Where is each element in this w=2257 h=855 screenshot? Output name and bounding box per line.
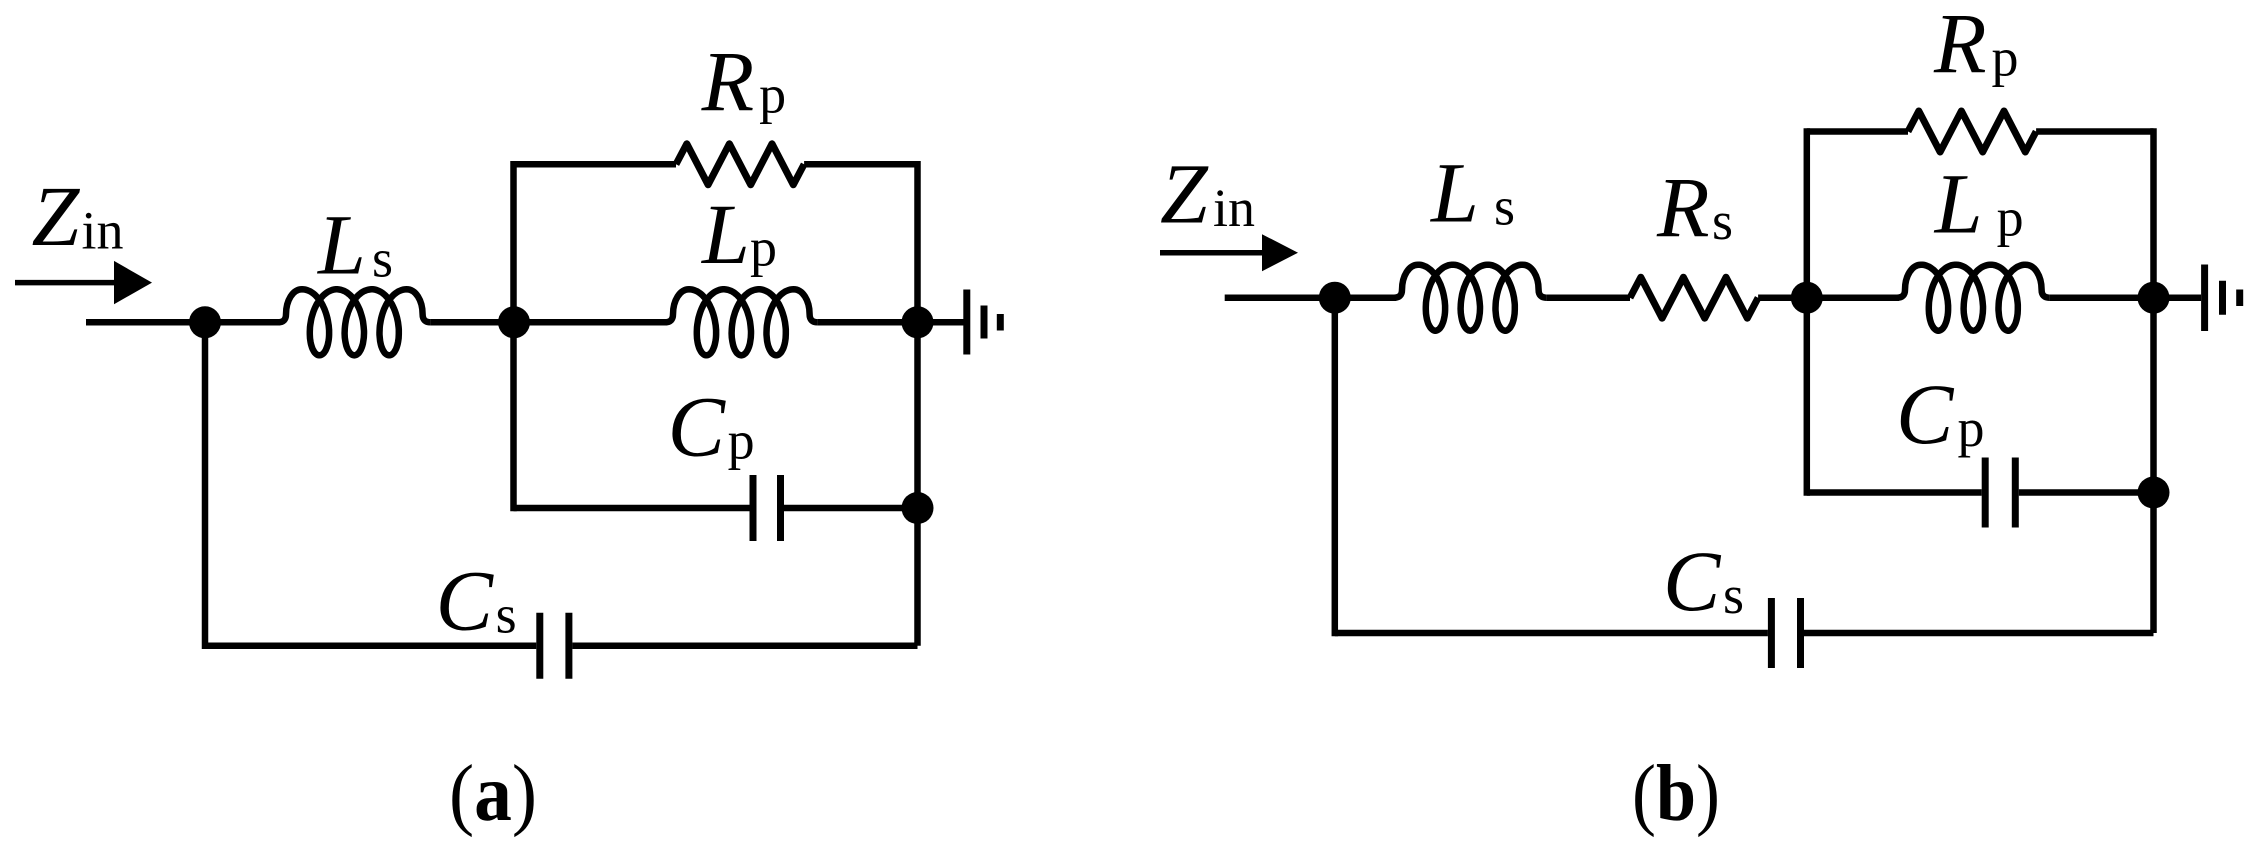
node 4 (b) junction (2138, 477, 2170, 509)
arrow Z_in (b) (1160, 250, 1265, 256)
svg-text:L: L (1933, 156, 1983, 252)
svg-text:L: L (700, 186, 750, 282)
svg-text:p: p (759, 65, 786, 125)
node 3 (b) junction (2138, 282, 2170, 314)
svg-text:R: R (701, 33, 755, 129)
svg-text:Z: Z (1160, 146, 1209, 242)
resistor Rp (a) (676, 144, 804, 185)
svg-text:s: s (1494, 177, 1515, 237)
wire node2 to Lp (b) (1800, 294, 1899, 301)
svg-text:L: L (316, 197, 366, 293)
wire Ls to node2 (a) (431, 319, 514, 326)
wire bottom left (a) (205, 642, 536, 649)
svg-text:R: R (1933, 0, 1987, 91)
resistor Rp (b) (1908, 111, 2036, 152)
inductor Lp (a) (665, 289, 818, 355)
wire right vertical (a) (914, 161, 921, 646)
svg-text:in: in (82, 201, 124, 261)
node 2 (a) junction (498, 306, 530, 338)
svg-text:R: R (1656, 159, 1710, 255)
wire bottom right (a) (572, 642, 917, 649)
svg-text:L: L (1429, 145, 1479, 241)
svg-text:(a): (a) (449, 750, 537, 838)
wire left riser to Rp branch (a) (510, 161, 517, 322)
svg-text:C: C (1663, 533, 1722, 629)
wire bottom left (b) (1335, 630, 1768, 637)
wire Lp to node3 (a) (818, 319, 918, 326)
capacitor Cs (b) (1768, 598, 1775, 668)
svg-text:in: in (1213, 178, 1255, 238)
wire Rp branch right (a) (804, 161, 917, 168)
wire node1 to Ls (b) (1329, 294, 1396, 301)
wire Ls to Rs (b) (1547, 294, 1630, 301)
node 1 (b) junction (1319, 282, 1351, 314)
wire bottom right (b) (1804, 630, 2154, 637)
svg-text:Z: Z (32, 168, 81, 264)
svg-text:C: C (1896, 366, 1955, 462)
ground (b) (2154, 294, 2202, 301)
wire Rp branch left (a) (514, 161, 677, 168)
svg-text:C: C (668, 379, 727, 475)
inductor Ls (a) (278, 289, 431, 355)
wire left riser below node2 (a) (510, 322, 517, 511)
wire Cp branch right (b) (2019, 489, 2154, 496)
wire input (a) (86, 319, 205, 326)
wire left vertical (a) (202, 322, 209, 649)
svg-text:(b): (b) (1632, 750, 1720, 838)
node 4 (a) junction (902, 492, 934, 524)
svg-text:s: s (1723, 565, 1744, 625)
wire Lp to node3 (b) (2050, 294, 2154, 301)
arrow Z_in (a) (15, 280, 118, 286)
capacitor Cs (a) (536, 613, 543, 679)
resistor Rs (b) (1630, 277, 1758, 318)
svg-text:p: p (1997, 188, 2024, 248)
svg-text:p: p (1958, 398, 1985, 458)
capacitor Cp (b) (1982, 458, 1989, 528)
node 2 (b) junction (1791, 282, 1823, 314)
wire node2 to Lp (a) (508, 319, 667, 326)
wire input (b) (1225, 294, 1335, 301)
capacitor Cp (a) (750, 475, 757, 541)
inductor Lp (b) (1897, 265, 2050, 331)
wire node1 to Ls (a) (199, 319, 280, 326)
svg-text:C: C (436, 553, 495, 649)
wire Cp branch right (a) (784, 505, 918, 512)
wire Cp branch left (b) (1807, 489, 1982, 496)
wire left vertical (b) (1332, 298, 1339, 637)
wire Rs to node2 (b) (1758, 294, 1807, 301)
wire right vertical (b) (2150, 128, 2157, 633)
svg-text:s: s (1712, 191, 1733, 251)
node 3 (a) junction (902, 306, 934, 338)
svg-text:s: s (372, 229, 393, 289)
svg-text:p: p (750, 218, 777, 278)
inductor Ls (b) (1394, 265, 1547, 331)
svg-text:p: p (1992, 28, 2019, 88)
node 1 (a) junction (189, 306, 221, 338)
wire Rp branch right (b) (2036, 128, 2153, 135)
wire left riser to Rp branch (b) (1804, 128, 1811, 496)
svg-text:s: s (496, 585, 517, 645)
svg-text:p: p (728, 411, 755, 471)
wire Cp branch left (a) (514, 505, 750, 512)
wire Rp branch left (b) (1807, 128, 1908, 135)
ground (a) (918, 319, 964, 326)
